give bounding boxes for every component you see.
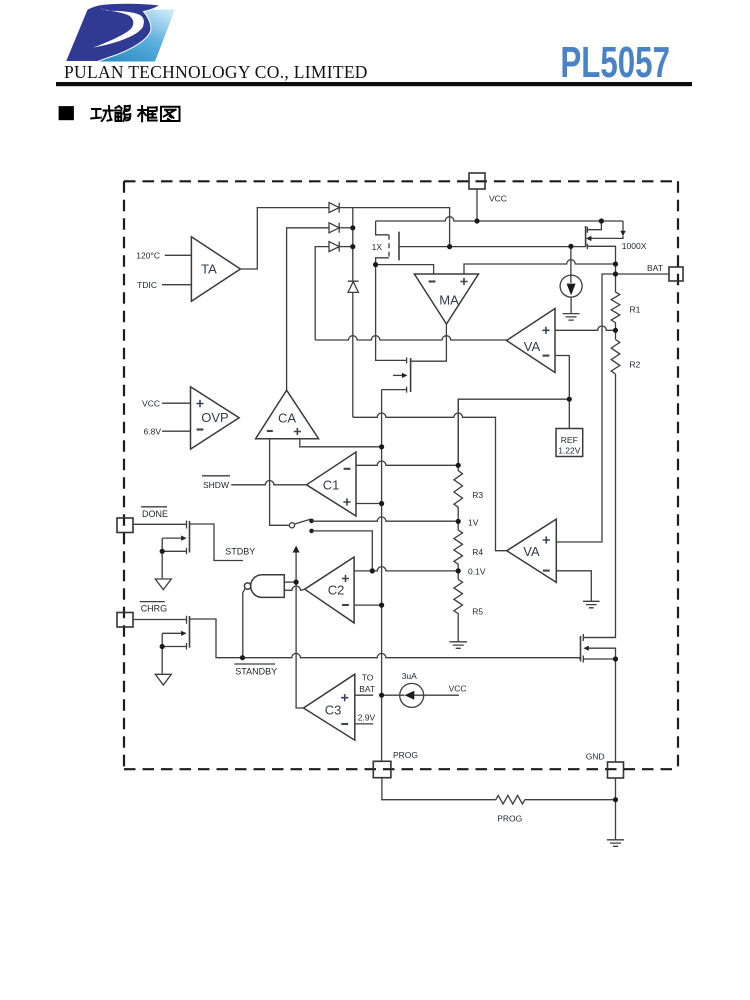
terminal CHRG xyxy=(117,613,133,628)
OVP input 6.8V xyxy=(162,430,191,432)
op-amp C1 xyxy=(307,452,357,516)
junction Q5 gate/body xyxy=(160,644,165,649)
svg-text:0.1V: 0.1V xyxy=(468,567,486,577)
mosfet Q6 battery pulldown xyxy=(581,634,616,663)
svg-text:1000X: 1000X xyxy=(622,241,647,251)
svg-text:PROG: PROG xyxy=(497,814,522,824)
part number PL5057 xyxy=(560,39,670,87)
ground G2 triangle xyxy=(155,674,171,685)
svg-text:PROG: PROG xyxy=(393,750,418,760)
mosfet Q5 CHRG open-drain xyxy=(133,616,243,674)
net STANDBY rail (hops at 296.1, 381.6) to Q6 gate xyxy=(243,653,580,659)
svg-text:1.22V: 1.22V xyxy=(558,446,581,456)
wire VA2 minus to ground G5 xyxy=(556,571,591,601)
svg-text:2.9V: 2.9V xyxy=(358,713,376,723)
svg-text:CA: CA xyxy=(278,411,296,426)
svg-text:SHDW: SHDW xyxy=(203,480,229,490)
svg-text:OVP: OVP xyxy=(201,410,228,425)
junction Rprog/GND column xyxy=(613,797,618,802)
svg-text:VA: VA xyxy=(524,339,541,354)
svg-text:R1: R1 xyxy=(630,305,641,315)
junction sense-rail/R1 xyxy=(613,261,618,266)
junction node 1V xyxy=(456,519,461,524)
wire switch lower contact to C2 plus node xyxy=(312,531,373,571)
wire D2 cathode to zener column xyxy=(339,227,353,229)
svg-text:VCC: VCC xyxy=(489,194,507,204)
wire CA plus input to PROG node xyxy=(300,439,382,447)
section heading square bullet xyxy=(59,106,74,120)
junction C2+/switch branch xyxy=(370,568,375,573)
op-amp MA xyxy=(414,274,478,324)
junction Q1 source xyxy=(373,262,378,267)
svg-text:R5: R5 xyxy=(472,607,483,617)
C3 plus stub TO BAT xyxy=(355,694,373,696)
svg-text:PULAN TECHNOLOGY CO., LIMITED: PULAN TECHNOLOGY CO., LIMITED xyxy=(64,62,368,82)
svg-text:120°C: 120°C xyxy=(136,251,160,261)
svg-text:BAT: BAT xyxy=(647,263,663,273)
resistor R4 xyxy=(454,530,463,579)
svg-text:1X: 1X xyxy=(372,242,383,252)
wire VA1 minus to REF xyxy=(555,356,569,429)
ground G6 bottom xyxy=(607,840,624,847)
svg-text:3uA: 3uA xyxy=(402,671,417,681)
wire C1 minus input (hop at 381.6) xyxy=(356,461,458,465)
junction D1/gate-net xyxy=(447,244,452,249)
svg-text:VCC: VCC xyxy=(449,684,467,694)
svg-text:BAT: BAT xyxy=(359,684,375,694)
terminal VCC xyxy=(469,173,485,189)
op-amp CA xyxy=(256,390,319,439)
wire BAT rail down to VA2 plus xyxy=(556,274,669,542)
wire top rail VCC/1X-drain/1000X-drain (y=221, hop over x=449.6) xyxy=(376,217,623,221)
wire CA output riser to D2 anode xyxy=(287,228,329,390)
wire gate net 1X to 1000X (y=246.6) xyxy=(399,246,586,248)
mosfet Q1 1X xyxy=(376,221,399,265)
junction PROG/CA+ xyxy=(379,444,384,449)
svg-text:R3: R3 xyxy=(472,490,483,500)
terminal DONE xyxy=(117,518,133,533)
svg-text:6.8V: 6.8V xyxy=(144,427,162,437)
op-amp VA2 xyxy=(507,519,557,582)
svg-text:TDIC: TDIC xyxy=(137,280,157,290)
nand input 1 xyxy=(284,581,296,583)
svg-text:VCC: VCC xyxy=(142,399,160,409)
resistor R2 xyxy=(611,340,620,375)
junction NAND out/STANDBY xyxy=(240,655,245,660)
terminal PROG xyxy=(373,761,391,777)
wire zener column (x=352.8) down to comparator rail xyxy=(352,208,354,418)
wire CA minus input down to mode switch xyxy=(270,439,290,526)
wire VCC terminal stem xyxy=(476,189,478,221)
wire R2 bottom to Q6 drain xyxy=(583,374,615,638)
svg-text:DONE: DONE xyxy=(142,509,168,519)
logo white swoosh xyxy=(93,7,144,47)
block REF 1.22V xyxy=(556,429,583,457)
junction PROG/C1+ xyxy=(379,501,384,506)
svg-text:STDBY: STDBY xyxy=(225,547,255,557)
svg-text:TO: TO xyxy=(362,673,374,683)
svg-text:VA: VA xyxy=(523,544,540,559)
wire VA1 output rail (y=340, hops at 352.8,376,446.4) to D3 anode riser xyxy=(315,247,329,340)
svg-text:1V: 1V xyxy=(468,518,479,528)
junction top-rail/Q2 drain xyxy=(599,218,604,223)
wire Q6 source to GND terminal and ground xyxy=(615,659,617,840)
junction BAT/R1 xyxy=(613,271,618,276)
junction PROG/I2 xyxy=(379,693,384,698)
diode D2 xyxy=(329,223,339,233)
op-amp VA1 xyxy=(507,309,556,373)
wire C3 output riser with up arrow xyxy=(296,552,303,708)
ground G1 triangle xyxy=(155,579,171,590)
diode D1 xyxy=(329,203,339,213)
svg-text:C1: C1 xyxy=(323,478,340,493)
diode D3 xyxy=(329,242,339,252)
OVP input VCC xyxy=(162,402,191,404)
junction gate-net/I1 xyxy=(568,244,573,249)
junction Q6 source/body xyxy=(613,656,618,661)
mosfet Q2 1000X xyxy=(586,221,623,264)
svg-text:PL5057: PL5057 xyxy=(560,39,670,87)
wire C2 minus input xyxy=(354,604,382,606)
svg-text:REF: REF xyxy=(561,435,578,445)
ground G3 under I1 xyxy=(563,314,580,321)
mosfet Q3 driver xyxy=(376,265,411,393)
current source I2 3uA xyxy=(400,683,424,707)
wire comparator rail y=417.3 to VA2 output (hops at 381.6,458.2) xyxy=(353,413,507,551)
junction R1/R2/VA1+ xyxy=(613,328,618,333)
nand gate U2 xyxy=(251,575,285,598)
junction R3 top xyxy=(456,463,461,468)
TA input 120°C xyxy=(165,254,192,256)
terminal GND xyxy=(608,762,624,778)
wire PROG node vertical (x=381.6) xyxy=(381,390,383,762)
zener diode DZ xyxy=(348,281,359,292)
current source I1 xyxy=(560,275,582,297)
logo dark-blue P shape xyxy=(66,3,161,61)
junction C3out/NAND in1 xyxy=(294,580,299,585)
svg-text:CHRG: CHRG xyxy=(141,604,168,614)
mode switch SW1 xyxy=(289,523,294,528)
wire 0.1V tap / C2 plus input (hop at 381.6) xyxy=(354,567,458,571)
svg-text:STANDBY: STANDBY xyxy=(235,667,277,677)
op-amp C3 xyxy=(304,674,355,740)
ground G4 under R5 xyxy=(450,642,468,649)
resistor Rprog xyxy=(496,795,525,804)
header rule xyxy=(56,82,692,86)
section heading 功能框图 (drawn strokes) xyxy=(91,106,179,122)
junction REF/C1- node xyxy=(567,397,572,402)
logo light-blue parallelogram xyxy=(98,10,176,62)
wire TA output to D1 anode xyxy=(240,208,329,269)
ground G5 xyxy=(583,601,600,608)
wire PROG terminal to program resistor xyxy=(382,778,616,800)
dashed frame border xyxy=(124,181,678,769)
wire nand output to STANDBY node xyxy=(243,588,245,657)
terminal BAT xyxy=(669,267,683,281)
op-amp C2 xyxy=(305,557,354,623)
wire D1 cathode to gate-net riser (hops under y221 line) xyxy=(339,208,449,247)
svg-text:MA: MA xyxy=(439,293,459,308)
junction node 0.1V xyxy=(456,568,461,573)
resistor R5 xyxy=(454,579,463,641)
wire C1 minus riser to REF node xyxy=(458,399,569,465)
wire MA minus input from Q1 source xyxy=(376,265,434,274)
svg-text:C2: C2 xyxy=(328,583,345,598)
net label SHDW wire to C1 output (hop at 269.6) xyxy=(231,481,306,485)
C3 minus stub 2.9V xyxy=(355,723,373,725)
resistor R1 xyxy=(611,264,620,340)
junction D3 cathode xyxy=(350,244,355,249)
wire MA plus input to sense node (y=264, hop at 571) xyxy=(464,260,616,274)
op-amp TA xyxy=(191,237,240,301)
wire MA output to driver Q3 xyxy=(411,324,447,361)
junction Q4 gate/body xyxy=(160,549,165,554)
svg-text:R2: R2 xyxy=(630,360,641,370)
wire D3 cathode to zener column xyxy=(339,246,353,248)
junction VCC/top-rail xyxy=(474,218,479,223)
switch contact 0.1V xyxy=(309,529,314,534)
junction D2 cathode xyxy=(350,225,355,230)
svg-text:GND: GND xyxy=(586,752,605,762)
op-amp OVP xyxy=(191,387,240,449)
wire VA1 plus input (hop at 602) xyxy=(555,326,616,330)
wire C1 plus input xyxy=(356,503,382,505)
svg-text:C3: C3 xyxy=(325,703,342,718)
nand input 2 (hop at 296.2) to C2 output xyxy=(284,586,304,590)
svg-text:R4: R4 xyxy=(472,547,483,557)
wire 1V tap to switch contact (hop at 381.6) xyxy=(312,517,459,521)
svg-text:TA: TA xyxy=(201,262,217,277)
junction PROG/C2- xyxy=(379,603,384,608)
switch contact 1V xyxy=(309,519,314,524)
mosfet Q4 DONE open-drain xyxy=(133,521,243,579)
resistor R3 xyxy=(454,399,463,530)
TA input TDIC xyxy=(162,284,191,286)
